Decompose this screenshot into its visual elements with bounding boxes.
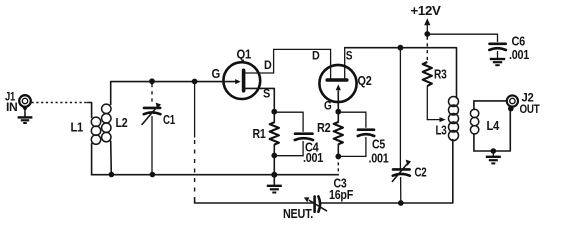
svg-text:S: S (346, 51, 353, 63)
junction L4 ground (491, 148, 497, 154)
svg-text:L2: L2 (116, 115, 128, 130)
wire R2 bottom to rail (faded) (337, 156, 339, 174)
inductor L1 (91, 117, 100, 144)
wire C1 bottom stub (151, 117, 153, 175)
svg-text:C2: C2 (415, 165, 427, 180)
resistor R3 (423, 37, 432, 120)
junction C2 top (398, 45, 404, 51)
capacitor C3 (variable, 16pF) (304, 196, 327, 211)
transistor Q2 (319, 65, 356, 102)
wire Q2 gate lead (337, 102, 339, 112)
junction C1 bottom (150, 172, 156, 178)
wire NEUT horizontal C3 to L3 bottom (320, 140, 453, 204)
junction R2 bottom (335, 154, 341, 160)
junction R1 top (271, 109, 277, 115)
wire NEUT vertical (faded dashed part) (194, 140, 196, 198)
junction C2 bottom (398, 200, 404, 206)
svg-text:R3: R3 (434, 67, 447, 82)
junction +12V node (424, 31, 430, 37)
capacitor C5 branch wires (338, 112, 366, 127)
ground (L4) (486, 151, 501, 163)
svg-text:IN: IN (6, 100, 18, 114)
ground (main rail) (267, 175, 282, 193)
svg-text:C1: C1 (163, 112, 175, 127)
wire Q1 drain to Q2 drain (top link) (274, 49, 331, 66)
ground (J1 shield) (18, 112, 33, 124)
wire C2 vertical (399, 48, 401, 169)
wire +12V to C6 (427, 34, 497, 41)
svg-text:OUT: OUT (520, 102, 541, 116)
svg-text:S: S (263, 87, 270, 101)
svg-text:NEUT.: NEUT. (283, 206, 313, 219)
wire C5 bottom return (338, 138, 366, 157)
capacitor C1 (variable) (142, 103, 161, 125)
wire gate rail (111, 81, 224, 83)
junction R2 top (335, 109, 341, 115)
wire NEUT vertical (solid part) (194, 82, 196, 138)
svg-text:L4: L4 (487, 118, 500, 133)
svg-text:G: G (324, 99, 332, 113)
svg-text:16pF: 16pF (329, 187, 353, 202)
wire R3 tap arrow into L3 (427, 117, 445, 122)
svg-text:D: D (312, 51, 320, 63)
resistor R1 (270, 112, 279, 156)
connector J2 (507, 95, 518, 111)
junction L2 bottom (109, 172, 115, 178)
wire bottom ground rail (92, 174, 339, 176)
wire C1 upper stub (faded) (151, 84, 153, 103)
wire L1 bottom lead (91, 144, 93, 175)
capacitor C5 (358, 130, 374, 136)
svg-text:D: D (264, 58, 272, 72)
wire R1 bottom to rail (273, 156, 275, 175)
svg-text:+12V: +12V (411, 4, 442, 18)
wire J1 to L1 (dashed coax) (32, 102, 88, 104)
wire Q2 source rail to L3 top (345, 48, 457, 98)
wire L1 top lead (88, 103, 92, 118)
node C1 top (149, 78, 155, 84)
capacitor C4 (295, 134, 313, 140)
wire Q1 source lead (245, 88, 275, 111)
connector J1 (19, 95, 31, 112)
inductor L4 (470, 101, 478, 151)
power +12V (424, 18, 430, 34)
svg-text:Q1: Q1 (237, 47, 252, 62)
svg-text:L1: L1 (71, 120, 84, 135)
svg-text:C5: C5 (372, 137, 385, 152)
wire C4 bottom return (274, 142, 303, 156)
wire NEUT horizontal to C3 (195, 198, 314, 203)
svg-text:.001: .001 (303, 151, 323, 165)
capacitor C6 (489, 44, 506, 50)
transistor Q1 (223, 62, 260, 99)
svg-text:.001: .001 (509, 48, 529, 62)
svg-text:G: G (212, 67, 221, 81)
node NEUT tap on gate rail (192, 79, 198, 85)
wire L4 bottom rail (474, 109, 510, 151)
junction rail/ground (271, 172, 277, 178)
capacitor C4 branch wires (274, 112, 303, 131)
svg-text:R1: R1 (253, 126, 266, 141)
svg-text:L3: L3 (436, 123, 447, 138)
wire L4 top to J2 (474, 100, 507, 102)
wire Q2 source lead up (344, 48, 346, 79)
capacitor C2 (variable) (392, 160, 411, 182)
ground (C6) (490, 52, 505, 66)
svg-text:.001: .001 (369, 152, 389, 166)
svg-text:C6: C6 (512, 34, 526, 49)
wire C2 bottom stub (400, 178, 402, 204)
svg-text:Q2: Q2 (358, 73, 372, 88)
resistor R2 (334, 112, 343, 157)
wire Q1 drain lead (245, 49, 274, 73)
inductor L3 (449, 97, 459, 141)
wire Q2 drain internal lead (330, 66, 332, 79)
svg-text:R2: R2 (317, 120, 331, 135)
inductor L2 (102, 82, 112, 175)
junction R1 bottom (271, 153, 277, 159)
